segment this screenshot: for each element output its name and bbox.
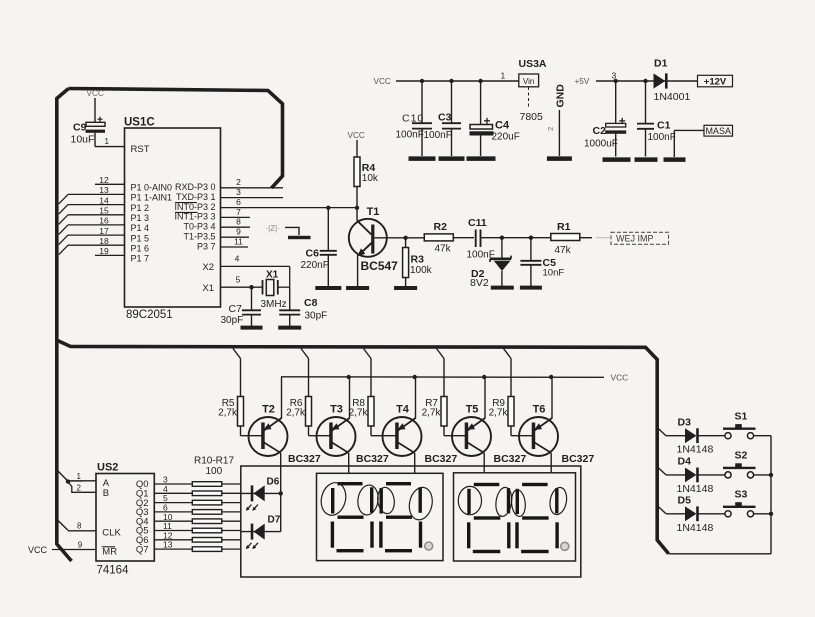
- svg-text:13: 13: [99, 185, 109, 195]
- svg-text:1N4001: 1N4001: [654, 91, 691, 103]
- svg-text:14: 14: [99, 195, 109, 205]
- svg-text:T2: T2: [262, 404, 275, 416]
- svg-text:CLK: CLK: [102, 527, 121, 538]
- svg-text:9: 9: [78, 540, 83, 549]
- svg-text:RST: RST: [131, 144, 150, 155]
- svg-text:Q7: Q7: [136, 544, 149, 555]
- svg-text:10nF: 10nF: [543, 267, 565, 278]
- svg-text:2,7k: 2,7k: [422, 408, 442, 419]
- svg-text:C10: C10: [402, 113, 424, 125]
- svg-text:P1 0-AIN0: P1 0-AIN0: [131, 183, 173, 193]
- svg-text:D5: D5: [678, 495, 692, 507]
- svg-text:6: 6: [236, 197, 241, 207]
- svg-text:C6: C6: [306, 248, 320, 260]
- svg-text:3: 3: [236, 187, 241, 197]
- svg-text:R1: R1: [557, 221, 571, 233]
- svg-text:T1: T1: [367, 206, 380, 218]
- svg-text:30pF: 30pF: [221, 315, 244, 326]
- svg-text:1: 1: [105, 137, 110, 146]
- svg-text:89C2051: 89C2051: [126, 309, 173, 321]
- svg-text:P1 7: P1 7: [131, 254, 150, 264]
- svg-text:C8: C8: [304, 297, 318, 309]
- svg-text:3: 3: [612, 70, 617, 80]
- svg-text:30pF: 30pF: [305, 310, 328, 321]
- svg-text:8V2: 8V2: [470, 277, 489, 289]
- svg-text:D6: D6: [267, 477, 280, 488]
- svg-text:R3: R3: [411, 253, 425, 265]
- svg-text:D1: D1: [654, 58, 668, 70]
- svg-text:+12V: +12V: [704, 76, 727, 87]
- svg-text:1000uF: 1000uF: [584, 138, 618, 149]
- svg-text:10uF: 10uF: [71, 134, 95, 146]
- svg-text:P1 5: P1 5: [131, 233, 150, 243]
- svg-text:T1-P3.5: T1-P3.5: [183, 232, 215, 242]
- svg-text:P1 3: P1 3: [131, 213, 150, 223]
- svg-text:220uF: 220uF: [492, 131, 520, 142]
- svg-text:RXD-P3 0: RXD-P3 0: [175, 182, 216, 192]
- svg-text:T6: T6: [533, 404, 546, 416]
- svg-text:INT1-P3 3: INT1-P3 3: [174, 212, 215, 222]
- svg-text:B: B: [103, 488, 109, 499]
- svg-text:WEJ IMP: WEJ IMP: [616, 234, 654, 244]
- svg-text:S3: S3: [735, 489, 748, 501]
- svg-text:Vin: Vin: [523, 77, 534, 86]
- svg-text:2,7k: 2,7k: [349, 408, 369, 419]
- svg-text:·|Z|·: ·|Z|·: [266, 224, 280, 233]
- svg-text:D7: D7: [268, 514, 281, 525]
- svg-text:T3: T3: [330, 404, 343, 416]
- svg-text:C4: C4: [495, 120, 510, 132]
- svg-text:2: 2: [546, 127, 555, 131]
- svg-text:T5: T5: [466, 404, 479, 416]
- svg-text:8: 8: [236, 217, 241, 227]
- svg-text:+5V: +5V: [575, 77, 590, 86]
- svg-text:MASA: MASA: [705, 126, 731, 136]
- svg-text:C9: C9: [73, 122, 87, 134]
- svg-text:X1: X1: [202, 283, 214, 294]
- svg-text:C7: C7: [229, 303, 243, 315]
- svg-text:10k: 10k: [362, 173, 379, 184]
- svg-text:1N4148: 1N4148: [677, 522, 714, 534]
- svg-text:1N4148: 1N4148: [677, 444, 714, 456]
- svg-text:4: 4: [235, 254, 240, 264]
- svg-text:BC327: BC327: [494, 453, 527, 465]
- svg-text:X1: X1: [266, 269, 279, 280]
- svg-text:D3: D3: [678, 417, 692, 429]
- svg-text:P1 4: P1 4: [131, 223, 150, 233]
- svg-text:TXD-P3 1: TXD-P3 1: [176, 192, 216, 202]
- svg-text:BC327: BC327: [356, 453, 389, 465]
- svg-text:7805: 7805: [520, 111, 544, 123]
- svg-text:2: 2: [236, 177, 241, 187]
- svg-text:R4: R4: [362, 162, 376, 174]
- svg-text:S1: S1: [735, 410, 748, 422]
- svg-text:GND: GND: [555, 84, 567, 108]
- svg-text:3MHz: 3MHz: [261, 299, 287, 310]
- svg-text:7: 7: [236, 207, 241, 217]
- svg-text:2,7k: 2,7k: [286, 408, 306, 419]
- svg-text:US2: US2: [97, 461, 118, 473]
- svg-text:C3: C3: [438, 112, 452, 124]
- svg-text:12: 12: [99, 175, 109, 185]
- svg-text:100nF: 100nF: [648, 132, 676, 143]
- svg-text:18: 18: [99, 236, 109, 246]
- svg-text:9: 9: [236, 227, 241, 237]
- svg-text:16: 16: [99, 216, 109, 226]
- svg-text:2,7k: 2,7k: [218, 408, 238, 419]
- svg-text:2: 2: [77, 484, 82, 493]
- svg-text:D4: D4: [678, 456, 692, 468]
- svg-text:VCC: VCC: [348, 131, 365, 140]
- svg-text:8: 8: [77, 522, 82, 531]
- svg-text:US3A: US3A: [519, 58, 547, 70]
- svg-text:VCC: VCC: [28, 545, 48, 555]
- svg-text:X2: X2: [202, 262, 214, 273]
- svg-text:220nF: 220nF: [301, 260, 329, 271]
- svg-text:US1C: US1C: [124, 117, 155, 129]
- svg-text:100nF: 100nF: [424, 130, 452, 141]
- svg-text:47k: 47k: [555, 245, 572, 256]
- svg-text:5: 5: [236, 274, 241, 284]
- svg-text:2,7k: 2,7k: [489, 408, 509, 419]
- svg-text:C11: C11: [468, 217, 487, 229]
- svg-text:S2: S2: [735, 450, 748, 462]
- svg-text:P1 1-AIN1: P1 1-AIN1: [131, 193, 173, 203]
- svg-text:15: 15: [99, 206, 109, 216]
- svg-text:13: 13: [163, 540, 173, 550]
- svg-text:100nF: 100nF: [396, 129, 424, 140]
- svg-text:VCC: VCC: [87, 89, 104, 98]
- svg-text:C2: C2: [593, 125, 607, 137]
- svg-text:R10-R17: R10-R17: [194, 455, 234, 466]
- svg-text:INT0-P3 2: INT0-P3 2: [174, 202, 215, 212]
- svg-text:R2: R2: [434, 221, 448, 233]
- svg-text:1: 1: [77, 472, 82, 481]
- svg-text:P1 2: P1 2: [131, 203, 150, 213]
- svg-text:11: 11: [234, 236, 243, 246]
- svg-text:100: 100: [206, 466, 223, 477]
- svg-text:17: 17: [99, 226, 109, 236]
- svg-text:T0-P3 4: T0-P3 4: [183, 222, 215, 232]
- svg-text:BC327: BC327: [562, 453, 595, 465]
- svg-text:T4: T4: [396, 404, 410, 416]
- svg-text:VCC: VCC: [611, 373, 629, 383]
- svg-text:19: 19: [99, 246, 109, 256]
- svg-text:P3 7: P3 7: [197, 241, 216, 251]
- svg-text:P1 6: P1 6: [131, 243, 150, 253]
- svg-text:C1: C1: [657, 120, 671, 132]
- svg-text:BC327: BC327: [425, 453, 458, 465]
- svg-text:74164: 74164: [97, 564, 130, 576]
- svg-text:47k: 47k: [435, 244, 452, 255]
- svg-text:1: 1: [501, 71, 506, 81]
- svg-text:MR: MR: [102, 546, 117, 557]
- svg-text:VCC: VCC: [374, 77, 391, 86]
- svg-text:1N4148: 1N4148: [677, 483, 714, 495]
- svg-text:BC327: BC327: [288, 453, 321, 465]
- svg-text:BC547: BC547: [361, 259, 399, 273]
- svg-text:100k: 100k: [410, 265, 433, 276]
